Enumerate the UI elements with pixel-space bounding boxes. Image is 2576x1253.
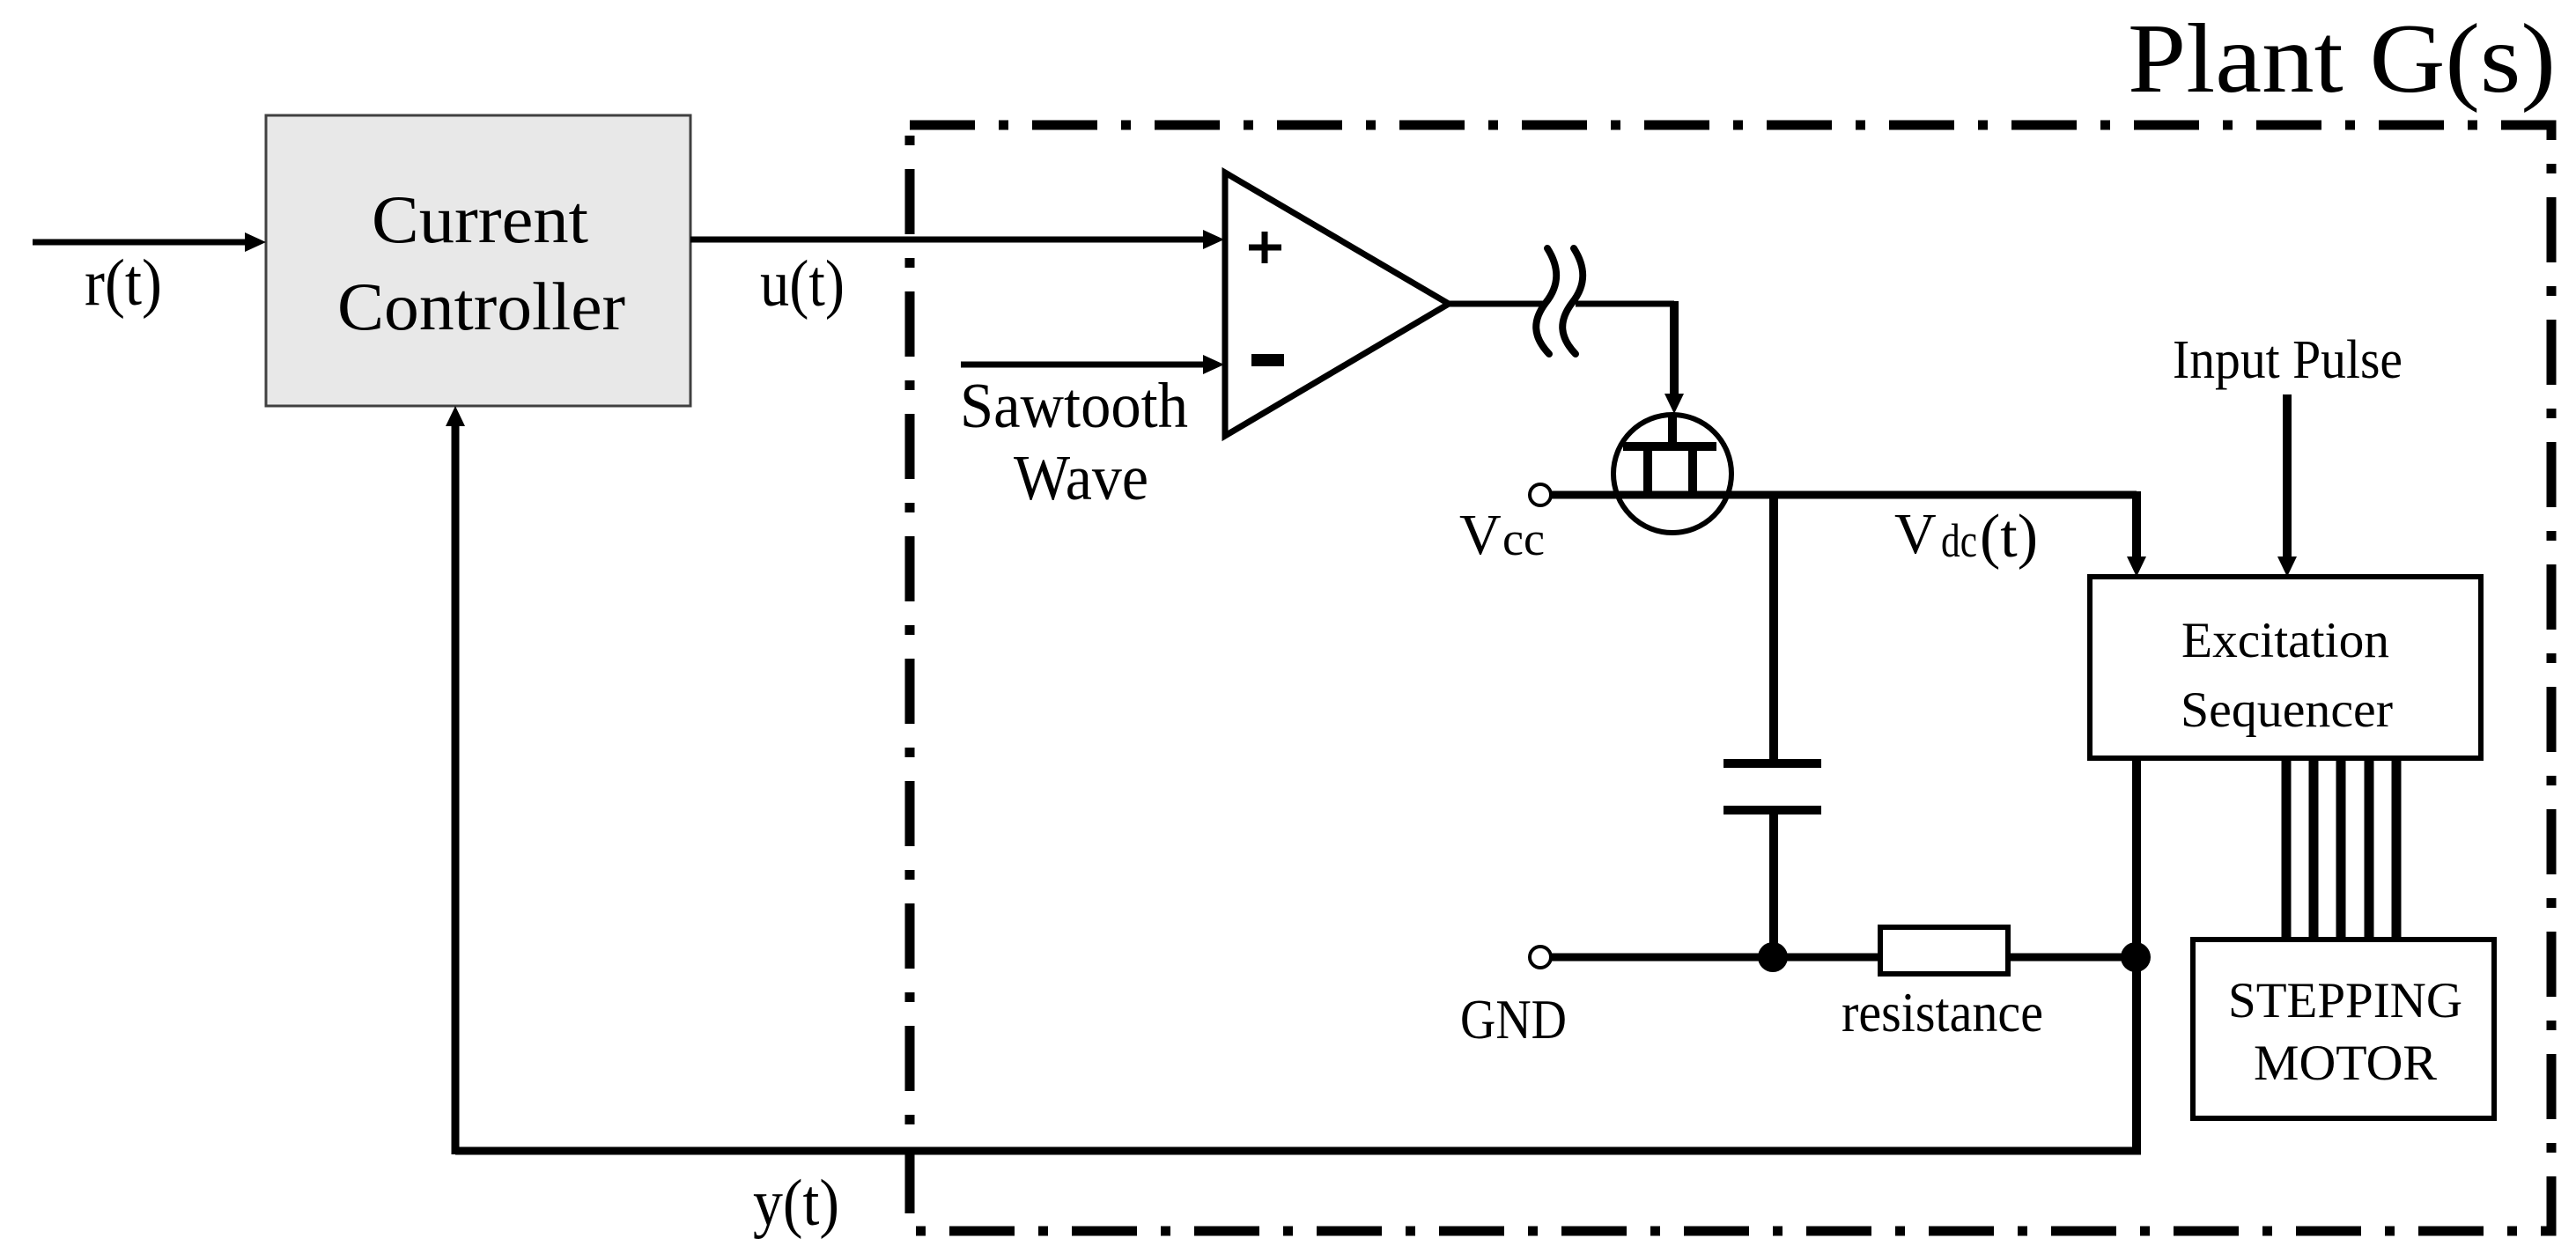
wire sequencer to motor bus [2286,758,2396,940]
transistor Q1 (MOSFET) [1613,414,1731,533]
svg-text:y(t): y(t) [753,1167,839,1240]
wire op-amp output with break [1447,301,1674,307]
block Excitation Sequencer [2090,577,2481,758]
wire u(t) to op-amp + input [690,230,1224,249]
svg-text:dc: dc [1941,514,1977,567]
svg-text:Current: Current [372,181,588,257]
svg-text:(t): (t) [1980,503,2038,571]
svg-text:MOTOR: MOTOR [2254,1036,2437,1091]
wire r(t) input arrow [33,232,266,252]
svg-text:V: V [1459,503,1502,567]
svg-text:V: V [1894,502,1937,566]
wire feedback y(t) horizontal [455,1147,2141,1155]
block STEPPING MOTOR [2193,940,2494,1118]
wire gate drop into transistor [1664,301,1684,414]
node junction at sense line [2121,942,2151,972]
svg-text:Plant G(s): Plant G(s) [2128,4,2556,114]
label Sawtooth Wave [960,370,1188,513]
svg-text:Sequencer: Sequencer [2181,682,2393,738]
wire resistor to node [2008,954,2136,962]
svg-text:Input Pulse: Input Pulse [2173,330,2403,390]
block Current Controller [266,115,690,406]
svg-text:Controller: Controller [337,269,625,344]
svg-text:r(t): r(t) [85,247,162,320]
svg-text:cc: cc [1502,512,1545,565]
capacitor C1 branch wire lower [1769,814,1778,957]
svg-text:resistance: resistance [1842,981,2043,1043]
svg-text:u(t): u(t) [760,247,845,321]
resistor R1 [1880,927,2008,974]
wire feedback sense drop [2132,758,2141,1154]
svg-text:GND: GND [1460,988,1567,1050]
capacitor C1 branch wire upper [1769,491,1778,759]
node junction at capacitor [1758,942,1788,972]
terminal GND [1530,947,1551,968]
wire input pulse arrow [2277,394,2297,577]
plant boundary dash-dot box [910,125,2551,1231]
svg-text:Wave: Wave [1014,442,1148,513]
wire GND to resistor [1552,954,1880,962]
svg-text:Excitation: Excitation [2181,613,2389,668]
svg-text:STEPPING: STEPPING [2228,973,2462,1028]
break squiggle marks [1536,248,1583,354]
svg-text:Sawtooth: Sawtooth [960,370,1188,441]
capacitor C1 [1723,763,1821,810]
wire Vcc to excitation sequencer (Vdc) [1552,491,2146,577]
op-amp U1 comparator [1225,173,1449,436]
wire feedback rise to controller [446,406,465,1154]
wire sawtooth arrow to op-amp - input [961,355,1224,374]
terminal Vcc [1530,484,1551,505]
